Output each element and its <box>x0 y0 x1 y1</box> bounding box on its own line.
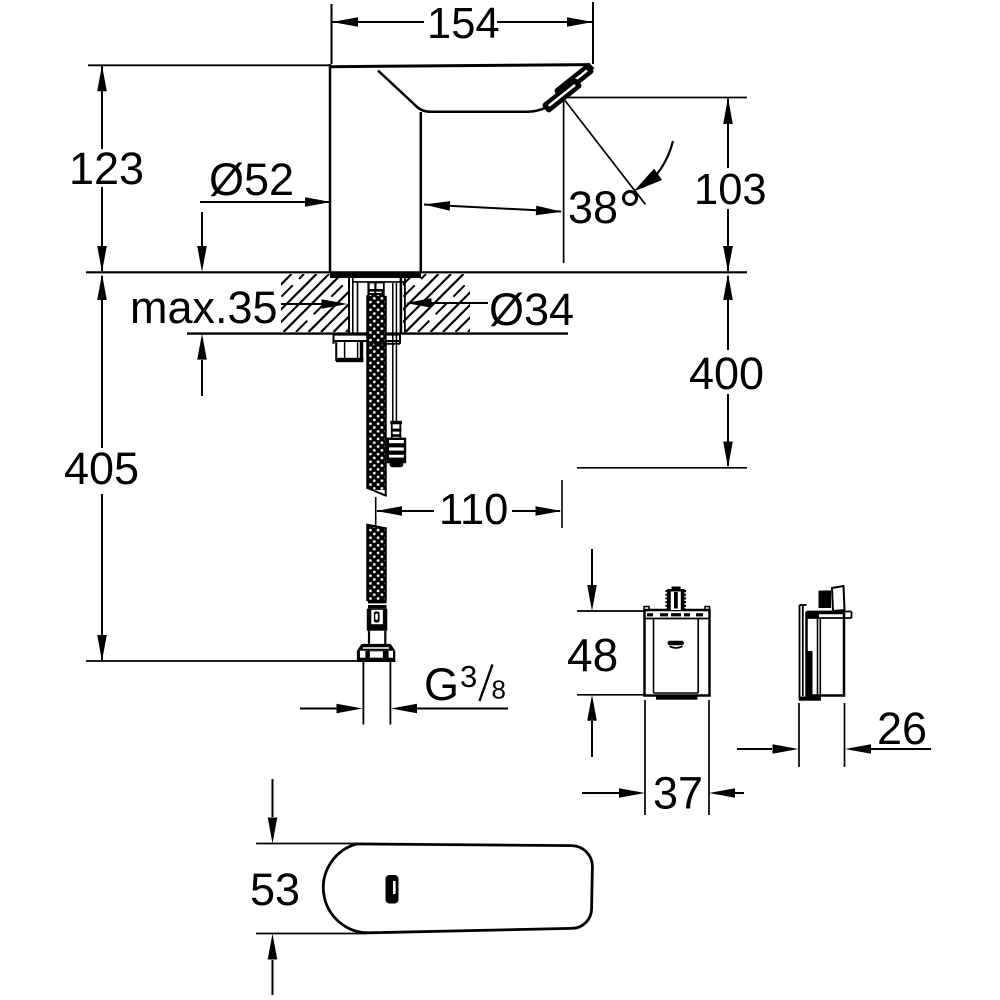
dimension 405 line <box>101 276 103 448</box>
mounting step right <box>374 343 400 345</box>
hose fitting inside shank <box>367 283 384 297</box>
hatch left of shank <box>221 274 404 332</box>
cap line <box>645 618 709 620</box>
dimension 103 line <box>727 99 729 169</box>
curved arrow 38 degrees <box>642 141 673 188</box>
26 left arrow <box>737 748 772 750</box>
faucet base right edge <box>420 112 423 272</box>
side box left wall <box>799 605 801 700</box>
corner tabs <box>644 607 649 611</box>
arrow right 110 <box>536 506 562 516</box>
svg-text:G: G <box>424 659 459 710</box>
max35 leader <box>281 303 323 305</box>
arrow top 103 <box>723 98 733 124</box>
dimension 26 ext right <box>844 703 846 767</box>
hose nut <box>357 644 395 651</box>
side box top bracket <box>807 611 852 613</box>
svg-text:405: 405 <box>64 443 139 494</box>
degree symbol <box>624 192 637 205</box>
svg-text:max.35: max.35 <box>130 282 278 333</box>
48 bottom arrow <box>587 695 597 721</box>
dimension 123 extension line top <box>88 64 330 66</box>
control box front outline <box>645 610 710 696</box>
faucet top view outline <box>323 844 592 933</box>
dimension 123 line <box>101 66 103 149</box>
supply tube <box>362 662 364 725</box>
arrow base right <box>424 201 450 211</box>
dimension 37 ext left <box>644 700 646 815</box>
counter hatching <box>0 0 1 1</box>
shank inner line left <box>357 281 359 334</box>
shank outer wall right <box>404 274 406 334</box>
shank hole top line <box>353 281 404 283</box>
svg-text:400: 400 <box>689 348 764 399</box>
26 right arrow <box>845 744 871 754</box>
arrow left 154 <box>332 17 358 27</box>
hose fitting white band <box>368 631 370 644</box>
sensor window <box>386 875 399 904</box>
svg-text:154: 154 <box>427 0 500 48</box>
svg-text:Ø34: Ø34 <box>489 284 574 335</box>
dimension 154 extension line right <box>592 2 594 64</box>
38 degree diagonal line <box>565 101 646 205</box>
spout tip corner bevel <box>588 64 594 70</box>
dimension 26 ext left <box>798 703 800 767</box>
37 right arrow <box>709 788 735 798</box>
dimension 48 ext top <box>577 610 646 612</box>
braided hose lower segment <box>366 525 386 602</box>
dimension 53 ext bottom <box>256 933 367 935</box>
shank inner line right <box>400 278 403 334</box>
svg-text:38: 38 <box>568 182 618 233</box>
dimension 110 extension left <box>375 497 377 526</box>
dimension 110 line <box>377 510 434 512</box>
max35 bottom arrow <box>197 334 207 360</box>
vertical reference line from spout tip <box>563 100 565 263</box>
G38 dimension left <box>300 708 338 710</box>
dimension 405 extension bottom <box>86 660 357 662</box>
dimension 103 extension line top <box>566 97 747 99</box>
side box body <box>807 613 845 696</box>
faucet base bottom thick line <box>330 272 421 278</box>
dimension 48 ext bottom <box>577 694 646 696</box>
53 bottom arrow <box>268 934 278 960</box>
sensor cable <box>392 283 394 421</box>
arrow bottom 123 <box>97 246 107 272</box>
spout tip blade upper paddle <box>553 63 594 99</box>
arrow bottom 103 <box>723 246 733 272</box>
arrow left 110 <box>376 506 402 516</box>
dimension 400 line <box>727 276 729 350</box>
svg-text:103: 103 <box>694 166 767 214</box>
arrow D34 shank <box>406 298 432 308</box>
counter top line <box>86 271 747 273</box>
arrow top 400 <box>723 274 733 300</box>
cap dashes <box>647 613 653 616</box>
shank outer wall left <box>348 274 350 334</box>
bottom bar front box <box>656 696 698 700</box>
faucet spout underside <box>378 71 546 112</box>
svg-text:37: 37 <box>653 768 703 819</box>
faucet left edge <box>329 64 332 272</box>
dimension 37 ext right <box>708 700 710 815</box>
side box white flap <box>832 586 845 611</box>
svg-text:48: 48 <box>567 629 618 681</box>
max35 top arrow <box>201 212 203 247</box>
svg-text:110: 110 <box>439 486 508 534</box>
sensor cable connector <box>390 421 402 425</box>
spout tip blade lower paddle <box>541 77 582 113</box>
mounting nut <box>335 341 337 361</box>
mounting washer <box>334 334 368 336</box>
dimension 53 ext top <box>256 843 363 845</box>
side box black strip <box>808 651 813 696</box>
arrow D52 <box>305 197 331 207</box>
arrow bottom 405 <box>97 635 107 661</box>
side box bottom foot <box>799 697 821 701</box>
svg-text:8: 8 <box>492 675 506 705</box>
53 top arrow <box>272 779 274 817</box>
leader to base right edge and angle reference <box>424 205 561 212</box>
thread serrations <box>665 590 667 610</box>
svg-text:53: 53 <box>250 864 300 915</box>
hatch right of shank <box>343 274 526 332</box>
hose fitting body <box>367 609 388 631</box>
arrowhead 38 curve <box>634 169 663 192</box>
leader line D52 <box>200 201 331 203</box>
threaded connector <box>667 589 685 610</box>
svg-text:Ø52: Ø52 <box>209 154 294 205</box>
side box inner lines <box>817 618 819 695</box>
arrow top 405 <box>97 274 107 300</box>
G38 dimension right <box>391 704 417 714</box>
arrow top 123 <box>97 65 107 91</box>
37 left arrow <box>582 792 619 794</box>
svg-text:123: 123 <box>69 143 144 194</box>
dimension 154 extension line left <box>331 4 333 64</box>
48 top arrow <box>591 549 593 585</box>
counter bottom line <box>187 332 367 334</box>
dimension 400 extension bottom <box>577 467 747 469</box>
svg-text:26: 26 <box>877 703 927 754</box>
arrow max35 shank <box>322 299 348 309</box>
arrow bottom 400 <box>723 442 733 468</box>
hose crimp collar <box>368 601 387 609</box>
inner wall lines front box <box>653 619 655 694</box>
arrow angle ref <box>536 206 562 216</box>
grohe logo <box>668 641 685 645</box>
side box top connector <box>819 591 832 609</box>
faucet top edge <box>329 65 590 67</box>
dimension 154 line <box>332 21 424 23</box>
braided hose upper segment <box>366 295 386 490</box>
dimension 110 extension right <box>561 480 563 528</box>
arrow right 154 <box>567 17 593 27</box>
svg-text:3: 3 <box>460 659 477 694</box>
